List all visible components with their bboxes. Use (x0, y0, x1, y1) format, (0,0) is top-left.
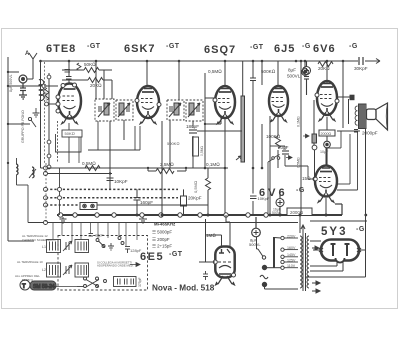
wire main ground bus (57, 214, 342, 216)
ground left (33, 108, 40, 117)
svg-text:2000pF: 2000pF (362, 131, 378, 136)
capacitor 10pF (89, 234, 94, 237)
capacitor 10KpF right (250, 196, 257, 199)
svg-text:160V: 160V (287, 246, 296, 250)
svg-text:50KΩ: 50KΩ (65, 131, 75, 136)
output transformer (337, 95, 366, 128)
tube V6 6V6 second (313, 166, 337, 204)
resistor 2000 ohm box lower (287, 208, 312, 233)
ground symbol center (139, 217, 147, 223)
arrow B+ end (374, 59, 380, 64)
mains switch (257, 237, 282, 270)
svg-text:125V: 125V (287, 258, 296, 262)
capacitor 30KpF (359, 57, 363, 65)
antenna A (25, 51, 37, 66)
wire vertical plate V5 (326, 61, 328, 83)
svg-text:500KΩ: 500KΩ (167, 141, 179, 146)
svg-text:180pF: 180pF (186, 124, 199, 129)
svg-text:L1: L1 (42, 245, 46, 249)
IF transformer T1 primary dashed box (95, 99, 114, 121)
svg-text:30KpF: 30KpF (354, 66, 368, 71)
svg-text:2,5MΩ: 2,5MΩ (160, 162, 174, 167)
IF T2 secondary coil (188, 103, 200, 117)
wire V1 area vertical (78, 137, 80, 163)
svg-text:10μF: 10μF (320, 150, 329, 154)
resistor 0,5M vertical (206, 168, 211, 215)
svg-text:500VL: 500VL (249, 242, 261, 247)
svg-text:6E5: 6E5 (140, 251, 164, 263)
speaker (367, 103, 388, 130)
svg-text:GRUPPO PB FONO: GRUPPO PB FONO (21, 110, 25, 143)
wire left border (8, 57, 34, 241)
resistor 20K screen (right) (318, 62, 333, 67)
note arrow line (97, 261, 134, 268)
svg-text:500VL: 500VL (287, 74, 301, 79)
resistor 2,5M (148, 168, 186, 174)
IF T2 primary coil (169, 103, 181, 117)
ground core row1 (108, 243, 114, 250)
svg-text:Nova - Mod. 518: Nova - Mod. 518 (152, 284, 215, 293)
svg-text:6V6: 6V6 (313, 43, 336, 55)
svg-text:128pF: 128pF (130, 248, 142, 253)
capacitor 128pF (125, 247, 130, 254)
switch contacts row1 (96, 237, 124, 248)
pin circle V6 grid (314, 177, 318, 181)
svg-text:6TE8: 6TE8 (46, 43, 76, 55)
mains plug (262, 282, 298, 289)
svg-text:500KΩ: 500KΩ (261, 69, 276, 74)
capacitor on V4 feed (250, 78, 256, 81)
electrolytic 8uF 500VL lower (252, 217, 261, 237)
wire B+ top bus (40, 60, 374, 62)
wire heater cable rows (46, 189, 178, 205)
wire vertical plate V4 (277, 61, 279, 85)
wire antenna lead (8, 66, 33, 79)
svg-text:6V6: 6V6 (259, 187, 288, 199)
svg-text:160pF: 160pF (140, 200, 153, 205)
electrolytic top small (302, 69, 309, 76)
wires 5Y3 to transformer (310, 241, 365, 271)
IF transformer T1 secondary dashed box (116, 100, 133, 120)
transformer primary taps (281, 236, 298, 269)
tube label 6SK7-GT (124, 43, 180, 55)
tube V7 6E5 magic eye (208, 247, 236, 286)
capacitor 6E5 bypass (203, 271, 208, 280)
svg-text:-GT: -GT (169, 251, 183, 258)
wire AVC line (46, 131, 361, 190)
tube V3 6SQ7 (213, 86, 235, 125)
resistor 0,5M on AVC line (85, 166, 100, 171)
coil L1 (47, 240, 61, 253)
svg-text:ADOPERANDO ONDE MED.: ADOPERANDO ONDE MED. (97, 264, 134, 268)
IF T1 secondary coil (118, 103, 130, 117)
wire mains shielded lead (273, 237, 275, 268)
resistor 20K top left (62, 78, 112, 83)
wires into band switch unit (53, 223, 137, 247)
svg-text:220V: 220V (287, 234, 296, 238)
svg-text:2000Ω: 2000Ω (321, 132, 332, 136)
tube V2 6SK7 (135, 86, 161, 125)
svg-text:0,1MΩ: 0,1MΩ (297, 116, 301, 127)
junction dots left border (7, 71, 9, 164)
capacitor 20pF (282, 151, 289, 154)
junction dots ground bus (161, 214, 272, 217)
wire bus end bend (335, 204, 342, 215)
resistor 50K top left (62, 68, 112, 73)
svg-text:20KΩ: 20KΩ (318, 66, 330, 71)
wire grid bus verticals (96, 61, 343, 215)
resistor V6 grid leak (312, 100, 317, 177)
svg-text:0,5MΩ: 0,5MΩ (297, 157, 301, 168)
resistor vertical small left (45, 88, 49, 100)
tube V4 6J5 (269, 86, 288, 123)
svg-text:8μF 500VL: 8μF 500VL (9, 74, 13, 92)
wire heater return right (310, 220, 367, 222)
junction dots mid wires (109, 123, 328, 217)
dashed box band switch unit (58, 236, 148, 291)
electrolytic input circle (19, 75, 27, 99)
electrolytic 16uF 500VL (276, 190, 284, 215)
label 5Y3-G (321, 226, 365, 238)
badge logo (20, 280, 56, 290)
antenna coil L-ant (39, 79, 44, 100)
svg-text:-G: -G (302, 43, 311, 50)
terminal circles column (44, 166, 62, 225)
coil L4 (75, 263, 89, 277)
wire V6 leads (325, 148, 327, 215)
svg-text:AL TERMINALE 10: AL TERMINALE 10 (17, 260, 43, 264)
capacitor mini top V1 (65, 70, 71, 73)
capacitor 20KpF (181, 189, 187, 215)
svg-text:10pF: 10pF (95, 234, 104, 238)
svg-text:0,5MΩ: 0,5MΩ (193, 181, 198, 193)
switch contact circles left (42, 75, 51, 169)
left margin tiny notes (15, 234, 56, 282)
svg-text:0,5MΩ: 0,5MΩ (208, 69, 222, 74)
svg-text:5Y3: 5Y3 (321, 226, 347, 238)
tap labels (287, 234, 296, 268)
svg-text:0,1MΩ: 0,1MΩ (206, 162, 220, 167)
tube label 6TE8-GT (46, 43, 101, 55)
potentiometer tone 0,1M vertical (301, 61, 309, 215)
electrolytic 10uF (324, 141, 331, 166)
resistor box 50K under V1 (62, 123, 82, 163)
resistor 10K vertical (276, 136, 281, 148)
svg-text:-G: -G (349, 43, 358, 50)
capacitor 2000pF (354, 130, 358, 133)
tube label 6SQ7-GT (204, 44, 264, 56)
svg-text:-G: -G (296, 187, 305, 194)
wire AVC dashed terminal column (45, 163, 47, 222)
svg-text:6J5: 6J5 (274, 43, 295, 55)
coil L3 (47, 263, 61, 277)
svg-text:CAVETTO SCHERMATO: CAVETTO SCHERMATO (22, 238, 56, 242)
IF T1 primary coil (98, 103, 110, 117)
tube label 6J5-G (274, 43, 311, 55)
resistor 2000 ohm box (319, 117, 335, 141)
wire left coil runs (17, 158, 60, 223)
fuse box (80, 203, 97, 210)
ground arrows below transformer (312, 281, 320, 293)
wire AVC dashed left column (44, 62, 46, 163)
oscillator coils left (16, 164, 34, 178)
svg-text:SM 59-24: SM 59-24 (33, 284, 55, 290)
bus junction circles (58, 213, 268, 217)
wire vertical plate V3 (224, 61, 226, 86)
mains cord squiggle (260, 275, 268, 279)
tube V1 6TE8 (56, 83, 81, 125)
svg-text:0,5MΩ: 0,5MΩ (200, 145, 204, 156)
capacitor 10KpF (107, 174, 114, 190)
tube V5 6V6 (315, 81, 339, 122)
tube label 6V6-G (313, 43, 358, 55)
wire vertical plate V2 (146, 61, 148, 86)
volume potentiometer (236, 61, 245, 162)
arrow HT secondary (312, 246, 319, 250)
svg-text:10KpF: 10KpF (114, 179, 128, 184)
svg-text:-GT: -GT (87, 43, 101, 50)
wire row 205 continuation (97, 204, 208, 206)
trimmer row2 (63, 265, 72, 275)
arrow signal to V6 (286, 156, 292, 160)
capacitor 180pF (189, 130, 197, 133)
svg-text:T: T (22, 284, 26, 290)
wire vertical V1 plate (68, 61, 70, 77)
resistor mini top V1 (77, 63, 81, 70)
svg-text:110V: 110V (287, 264, 296, 268)
svg-text:145V: 145V (287, 253, 296, 257)
svg-text:20KpF: 20KpF (188, 196, 202, 201)
svg-text:-G: -G (356, 226, 365, 233)
svg-text:8μF: 8μF (288, 68, 296, 73)
svg-text:☰ 5000pF: ☰ 5000pF (152, 230, 172, 235)
coil L2 (row1 right) (75, 240, 89, 253)
svg-text:-GT: -GT (166, 43, 180, 50)
svg-text:☰ 2÷15pF: ☰ 2÷15pF (152, 244, 172, 249)
capacitor bank box (114, 277, 137, 287)
switch lever left coils (29, 169, 36, 178)
IF transformer T2 primary dashed box (167, 100, 184, 120)
electrolytic 8uF 500VL (mid) (303, 61, 311, 95)
label 6E5-GT (140, 251, 183, 263)
wire heater line 222 (46, 222, 298, 224)
wire V1 cathode loop (56, 121, 141, 152)
resistor V3 grid box (193, 137, 199, 156)
tube V8 5Y3 (319, 240, 361, 263)
wire unit bottom lead (45, 286, 77, 288)
switch wafer bottom (77, 277, 107, 288)
svg-text:15Ω: 15Ω (302, 176, 311, 181)
svg-text:100KΩ: 100KΩ (266, 134, 281, 139)
svg-text:6SK7: 6SK7 (124, 43, 156, 55)
power transformer (300, 225, 309, 291)
svg-text:0,5MΩ: 0,5MΩ (82, 161, 96, 166)
trimmer row1 (63, 241, 72, 251)
grid cap V1 (66, 77, 72, 84)
svg-text:-GT: -GT (250, 44, 264, 51)
label 6V6-G lower (259, 187, 305, 199)
svg-text:6SQ7: 6SQ7 (204, 44, 236, 56)
wire antenna coil feed (8, 61, 58, 168)
switch tone (272, 155, 280, 160)
wire AVC dashed vertical (57, 121, 59, 163)
legend MF465 (152, 222, 175, 249)
wire switch to bus (268, 159, 273, 215)
svg-text:L2: L2 (42, 268, 46, 272)
ground symbol left (60, 217, 67, 223)
terminal circle 46.5,104 (45, 102, 49, 106)
5Y3 box border (306, 128, 366, 277)
junction dots top bus (39, 60, 344, 63)
svg-text:375pF: 375pF (138, 277, 142, 287)
switch left border (28, 117, 36, 127)
capacitor 160pF (134, 189, 141, 215)
wire 6E5 top lead (199, 215, 230, 263)
svg-text:MF465KHz: MF465KHz (154, 222, 175, 227)
svg-text:50KΩ: 50KΩ (84, 62, 96, 67)
IF transformer T2 secondary dashed box (186, 100, 203, 121)
svg-text:☰ 200pF: ☰ 200pF (152, 237, 170, 242)
